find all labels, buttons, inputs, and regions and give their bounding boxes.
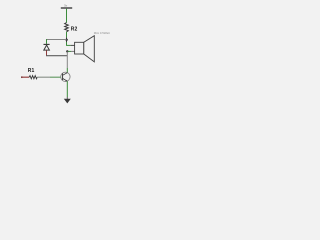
svg-text:Mini 0.5Watt: Mini 0.5Watt xyxy=(94,31,110,35)
svg-text:R2: R2 xyxy=(71,26,78,32)
svg-text:R1: R1 xyxy=(28,68,35,74)
